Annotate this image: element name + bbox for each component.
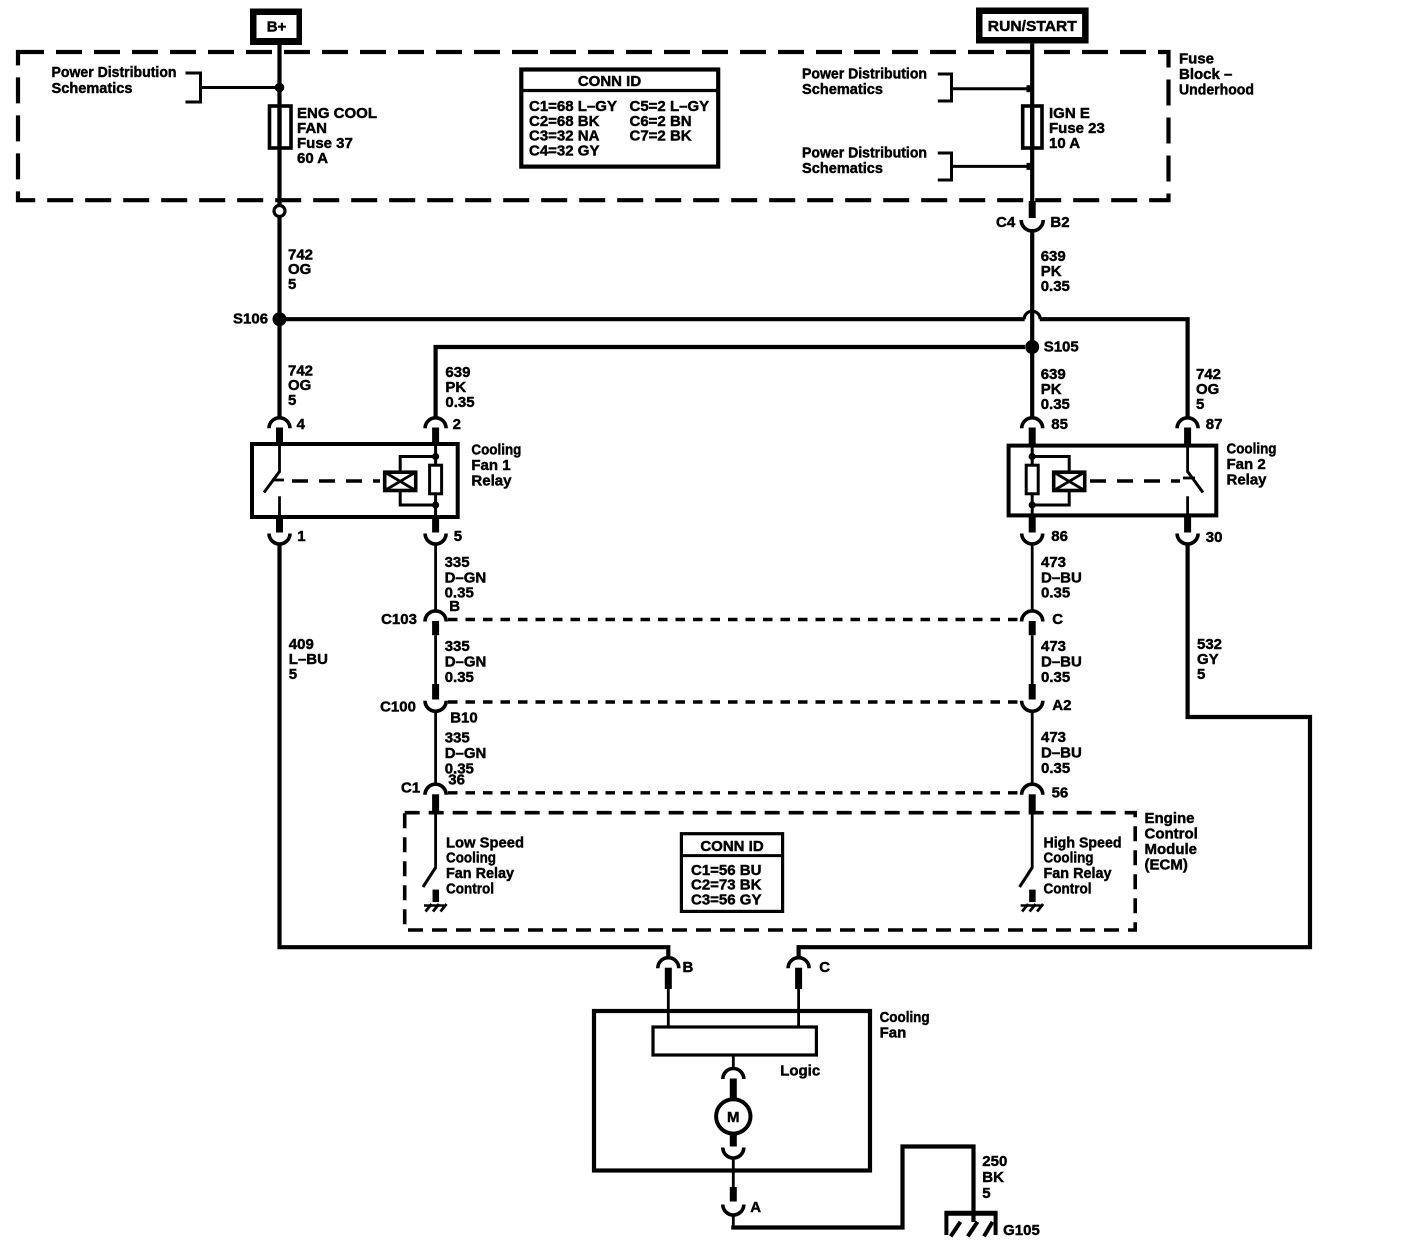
svg-text:5: 5 xyxy=(289,666,297,683)
wire bracket to B+ feed xyxy=(201,86,278,89)
connector A stub xyxy=(730,1187,737,1202)
svg-text:36: 36 xyxy=(448,771,465,788)
svg-text:0.35: 0.35 xyxy=(1041,396,1070,413)
svg-text:Underhood: Underhood xyxy=(1179,82,1254,99)
relay 2 inner feed wire xyxy=(1031,446,1034,516)
relay 1 switch lower wire xyxy=(278,496,281,517)
relay pin 87 arc xyxy=(1177,418,1198,429)
svg-text:C7=2 BK: C7=2 BK xyxy=(630,128,692,145)
svg-text:M: M xyxy=(727,1109,740,1126)
relay 1 switch blade xyxy=(264,472,280,493)
svg-text:4: 4 xyxy=(297,416,306,433)
svg-text:0.35: 0.35 xyxy=(445,394,474,411)
svg-text:C3=56 GY: C3=56 GY xyxy=(691,891,761,908)
wire motor to connector A xyxy=(732,1158,735,1187)
chassis ground (high speed) xyxy=(1021,904,1044,912)
svg-text:5: 5 xyxy=(1196,396,1204,413)
wire fuse 37 to terminal circle xyxy=(277,106,281,206)
wire hop over 639 PK xyxy=(1024,311,1040,319)
svg-text:Engine: Engine xyxy=(1145,810,1195,827)
svg-text:2: 2 xyxy=(453,416,461,433)
label 742 OG 5 (right mid) xyxy=(1196,366,1221,413)
wire 335 D-GN C103 to C100 xyxy=(434,635,437,684)
svg-text:CONN ID: CONN ID xyxy=(578,73,642,90)
svg-text:87: 87 xyxy=(1206,416,1223,433)
open terminal circle at fuse block exit xyxy=(274,206,285,217)
svg-text:Power Distribution: Power Distribution xyxy=(52,64,177,81)
label 473 D-BU 0.35 (2) xyxy=(1041,638,1082,686)
label 250 BK 5 xyxy=(982,1153,1007,1202)
svg-text:A2: A2 xyxy=(1052,697,1071,714)
ECM low speed ground stub xyxy=(433,890,440,902)
svg-text:D–GN: D–GN xyxy=(445,745,487,762)
fuse IGN E Fuse 23 10 A xyxy=(1023,106,1042,148)
svg-text:S106: S106 xyxy=(233,311,268,328)
svg-text:C: C xyxy=(819,959,830,976)
connector C1 stub xyxy=(432,794,439,812)
connector B arc xyxy=(658,958,679,969)
label 473 D-BU 0.35 (3) xyxy=(1041,729,1082,777)
motor M xyxy=(716,1099,750,1133)
relay pin 30 arc xyxy=(1177,534,1198,545)
label 742 OG 5 (left mid) xyxy=(288,363,313,409)
svg-text:Control: Control xyxy=(446,880,494,897)
relay pin 4 arc xyxy=(269,418,290,429)
label 639 PK 0.35 (upper) xyxy=(1041,248,1070,295)
wire 532 GY 5 pin 30 down across to fan C xyxy=(799,544,1313,958)
label 409 L-BU 5 xyxy=(289,636,328,683)
connector C stub xyxy=(795,968,802,989)
wire from B+ to fuse 37 xyxy=(277,45,281,148)
svg-text:Fan 1: Fan 1 xyxy=(471,457,510,474)
ECM high speed driver wire xyxy=(1031,813,1034,869)
label 639 PK 0.35 (left branch) xyxy=(445,364,474,411)
svg-text:C100: C100 xyxy=(380,699,416,716)
svg-text:Control: Control xyxy=(1145,826,1198,843)
wire 473 D-BU C to A2 xyxy=(1031,635,1034,684)
junction dot at B+ feed xyxy=(275,83,285,93)
cooling fan box xyxy=(594,1011,870,1171)
svg-text:B10: B10 xyxy=(450,710,478,727)
relay 2 actuation dashed link xyxy=(1090,479,1180,482)
svg-text:CONN ID: CONN ID xyxy=(700,838,764,855)
svg-text:Fan: Fan xyxy=(880,1025,907,1042)
connector A2 stub above xyxy=(1029,684,1036,700)
label 335 D-GN 0.35 (3) xyxy=(445,730,487,778)
svg-text:Block –: Block – xyxy=(1179,66,1232,83)
motor connector arc upper xyxy=(723,1069,744,1080)
label 532 GY 5 xyxy=(1197,636,1222,683)
wire 250 BK connector A to G105 xyxy=(732,1215,735,1228)
svg-text:RUN/START: RUN/START xyxy=(988,18,1077,35)
svg-text:0.35: 0.35 xyxy=(1041,585,1070,602)
logic box xyxy=(653,1027,816,1055)
relay pin 85 stub xyxy=(1029,428,1036,445)
dashed harness line C100 xyxy=(448,700,1021,703)
svg-text:60 A: 60 A xyxy=(297,150,328,167)
wire RUN/START to fuse 23 xyxy=(1030,44,1034,148)
svg-text:Fan 2: Fan 2 xyxy=(1227,456,1266,473)
connector ID table (fuse block) xyxy=(521,70,718,167)
relay 2 coil loop wires xyxy=(1032,457,1069,506)
svg-text:5: 5 xyxy=(982,1185,990,1202)
svg-text:Relay: Relay xyxy=(1227,472,1268,489)
relay pin 4 stub xyxy=(276,428,283,444)
wire fuse 23 to connector C4 xyxy=(1030,106,1034,201)
splice S106 xyxy=(273,312,287,326)
label Low Speed Cooling Fan Relay Control xyxy=(446,834,524,897)
relay pin 86 stub xyxy=(1029,515,1036,532)
bracket connector lower right xyxy=(938,153,952,180)
wire S105 branch to relay 1 pin 2 xyxy=(436,347,1025,418)
relay 1 switch upper wire xyxy=(278,444,281,473)
relay 2 resistor xyxy=(1026,465,1038,494)
svg-text:B2: B2 xyxy=(1050,214,1069,231)
relay 1 actuation dashed link xyxy=(292,479,380,482)
svg-text:0.35: 0.35 xyxy=(1041,278,1070,295)
connector C stub xyxy=(1029,621,1036,635)
svg-text:56: 56 xyxy=(1052,785,1069,802)
svg-text:Schematics: Schematics xyxy=(52,80,133,97)
connector 56 stub xyxy=(1029,794,1036,812)
label Power Distribution Schematics (right lower) xyxy=(802,145,927,177)
svg-text:1: 1 xyxy=(297,528,305,545)
dashed harness line C103 xyxy=(448,618,1021,621)
power terminal RUN/START xyxy=(976,8,1089,44)
relay pin 86 arc xyxy=(1022,534,1043,544)
label High Speed Cooling Fan Relay Control xyxy=(1044,834,1122,897)
ECM high speed ground stub xyxy=(1029,890,1036,902)
wire S106 to relay 2 pin 87 (742 OG) xyxy=(280,317,1025,321)
motor connector stub upper xyxy=(730,1079,737,1100)
label IGN E Fuse 23 10 A xyxy=(1049,105,1105,152)
wire 335 D-GN pin 5 to C103 xyxy=(434,544,437,611)
wire 742 OG 5 S106 down to pin 4 xyxy=(277,319,281,417)
svg-text:473: 473 xyxy=(1041,638,1066,655)
connector C103 arc xyxy=(425,611,446,622)
svg-text:30: 30 xyxy=(1206,529,1223,546)
fuse ENG COOL FAN Fuse 37 60 A xyxy=(270,106,292,148)
svg-text:(ECM): (ECM) xyxy=(1145,857,1188,874)
relay 2 switch blade xyxy=(1188,472,1203,493)
relay 1 coil box with X xyxy=(385,472,416,490)
connector C100 arc xyxy=(425,701,446,712)
wire bracket to IGN feed upper xyxy=(952,87,1031,90)
wire C into logic xyxy=(797,989,800,1027)
chassis ground (low speed) xyxy=(424,904,447,912)
wire bracket to IGN feed lower xyxy=(952,165,1031,168)
ECM low speed driver wire xyxy=(434,813,437,869)
junction dot coil top xyxy=(432,453,439,460)
wire 409 L-BU 5 pin 1 down and across to fan B xyxy=(280,544,669,958)
svg-text:BK: BK xyxy=(982,1169,1004,1186)
relay pin 1 arc xyxy=(269,534,290,545)
svg-text:250: 250 xyxy=(982,1153,1007,1170)
label ENG COOL FAN Fuse 37 60 A xyxy=(297,105,377,167)
svg-text:473: 473 xyxy=(1041,729,1066,746)
svg-text:C103: C103 xyxy=(381,611,417,628)
connector C4/B2 arc xyxy=(1021,220,1043,231)
label Engine Control Module (ECM) xyxy=(1145,810,1198,874)
svg-text:G105: G105 xyxy=(1003,1222,1040,1239)
relay pin 5 stub xyxy=(432,517,439,533)
svg-text:335: 335 xyxy=(445,730,470,747)
svg-text:Power Distribution: Power Distribution xyxy=(802,66,927,83)
svg-text:0.35: 0.35 xyxy=(1041,760,1070,777)
svg-text:5: 5 xyxy=(1197,666,1205,683)
label 335 D-GN 0.35 (2) xyxy=(445,638,487,686)
connector C4/B2 stub xyxy=(1029,201,1036,218)
wire logic to motor connector xyxy=(732,1055,735,1069)
svg-text:Module: Module xyxy=(1145,841,1198,858)
label Power Distribution Schematics (right upper) xyxy=(802,66,927,99)
relay pin 85 arc xyxy=(1022,418,1043,428)
svg-text:Control: Control xyxy=(1044,880,1092,897)
connector C arc xyxy=(788,958,809,969)
svg-text:C4=32 GY: C4=32 GY xyxy=(529,142,599,159)
connector B stub xyxy=(665,968,672,989)
wire 639 PK C4 to S105 xyxy=(1030,229,1034,347)
label 742 OG 5 (upper) xyxy=(288,247,313,293)
svg-text:C4: C4 xyxy=(996,214,1016,231)
relay 2 switch upper wire xyxy=(1186,446,1189,473)
wire B into logic xyxy=(667,989,670,1027)
relay pin 2 stub xyxy=(432,428,439,444)
dashed harness line C1 xyxy=(448,791,1021,794)
svg-text:86: 86 xyxy=(1051,528,1068,545)
svg-text:5: 5 xyxy=(288,392,296,409)
svg-text:A: A xyxy=(750,1199,761,1216)
svg-text:Cooling: Cooling xyxy=(1227,441,1277,458)
svg-text:0.35: 0.35 xyxy=(445,669,474,686)
svg-text:335: 335 xyxy=(445,638,470,655)
relay 1 inner feed wire xyxy=(434,444,437,517)
svg-text:5: 5 xyxy=(454,528,462,545)
label Cooling Fan xyxy=(880,1009,930,1042)
svg-text:Logic: Logic xyxy=(780,1063,820,1080)
ground G105 symbol xyxy=(944,1213,997,1236)
ECM dashed border xyxy=(405,813,1135,930)
svg-text:Schematics: Schematics xyxy=(802,81,883,98)
svg-text:C1: C1 xyxy=(401,780,420,797)
relay 2 coil box with X xyxy=(1054,472,1085,490)
svg-text:D–GN: D–GN xyxy=(445,653,487,670)
wire 335 D-GN C100 to C1 xyxy=(434,711,437,784)
wire 639 PK S105 down to pin 85 xyxy=(1030,347,1034,418)
motor connector stub lower xyxy=(730,1134,737,1147)
svg-text:Schematics: Schematics xyxy=(802,160,883,177)
ECM high speed switch blade xyxy=(1020,868,1033,888)
label 335 D-GN 0.35 (1) xyxy=(445,554,487,602)
connector A2 arc xyxy=(1022,701,1043,712)
relay pin 5 arc xyxy=(425,534,446,545)
label Cooling Fan 1 Relay xyxy=(471,442,521,490)
relay pin 30 stub xyxy=(1184,515,1191,532)
relay pin 2 arc xyxy=(425,418,446,429)
svg-text:D–BU: D–BU xyxy=(1041,654,1082,671)
bracket connector upper right xyxy=(938,74,952,101)
svg-text:5: 5 xyxy=(288,276,296,293)
junction nub upper xyxy=(1027,85,1034,92)
motor connector arc lower xyxy=(723,1148,744,1159)
relay 1 resistor xyxy=(430,465,442,494)
label 639 PK 0.35 (right mid) xyxy=(1041,366,1070,413)
svg-text:B: B xyxy=(683,959,694,976)
svg-text:Fuse: Fuse xyxy=(1179,51,1214,68)
wire 473 D-BU pin 86 to C xyxy=(1031,544,1034,611)
relay 1 coil loop wires xyxy=(400,457,435,506)
connector C100 stub above xyxy=(432,684,439,700)
ECM connector ID table xyxy=(681,834,782,912)
relay 1 switch contact tick xyxy=(272,479,284,482)
connector C1 arc xyxy=(425,784,446,795)
label Power Distribution Schematics (left) xyxy=(52,64,177,97)
label 473 D-BU 0.35 (1) xyxy=(1041,554,1082,602)
wire 473 D-BU A2 to 56 xyxy=(1031,711,1034,784)
junction dot coil bottom 2 xyxy=(1029,501,1036,508)
wire 742 OG 5 circle to S106 xyxy=(277,217,281,320)
junction nub lower xyxy=(1027,163,1034,170)
svg-text:Relay: Relay xyxy=(471,473,512,490)
wire hop to corner xyxy=(1040,317,1190,417)
connector C103 stub xyxy=(432,621,439,635)
svg-text:S105: S105 xyxy=(1044,339,1079,356)
label Cooling Fan 2 Relay xyxy=(1227,441,1277,489)
connector C arc xyxy=(1022,611,1043,622)
relay 2 switch contact tick xyxy=(1183,477,1195,480)
connector 56 arc xyxy=(1022,784,1043,795)
power terminal B+ xyxy=(250,9,302,46)
svg-text:B: B xyxy=(449,598,460,615)
svg-text:10 A: 10 A xyxy=(1049,135,1080,152)
junction dot coil bottom xyxy=(432,501,439,508)
svg-text:Cooling: Cooling xyxy=(880,1009,930,1026)
svg-text:D–BU: D–BU xyxy=(1041,745,1082,762)
svg-text:C: C xyxy=(1052,611,1063,628)
svg-text:Cooling: Cooling xyxy=(471,442,521,459)
label Fuse Block - Underhood xyxy=(1179,51,1254,99)
relay pin 1 stub xyxy=(276,517,283,533)
bracket connector to power distribution (left) xyxy=(186,73,201,102)
fuse block underhood dashed border xyxy=(18,52,1169,200)
svg-text:0.35: 0.35 xyxy=(1041,669,1070,686)
splice S105 xyxy=(1025,340,1039,354)
relay K1 Cooling Fan 1 box xyxy=(252,444,458,517)
relay 2 switch lower wire xyxy=(1186,496,1189,515)
relay pin 87 stub xyxy=(1184,428,1191,445)
junction dot coil top 2 xyxy=(1029,453,1036,460)
wire 250 BK route xyxy=(731,1147,973,1228)
relay K2 Cooling Fan 2 box xyxy=(1009,446,1217,516)
svg-text:B+: B+ xyxy=(267,19,287,36)
ECM low speed switch blade xyxy=(423,868,436,888)
connector A arc xyxy=(723,1205,744,1216)
svg-text:85: 85 xyxy=(1051,416,1068,433)
